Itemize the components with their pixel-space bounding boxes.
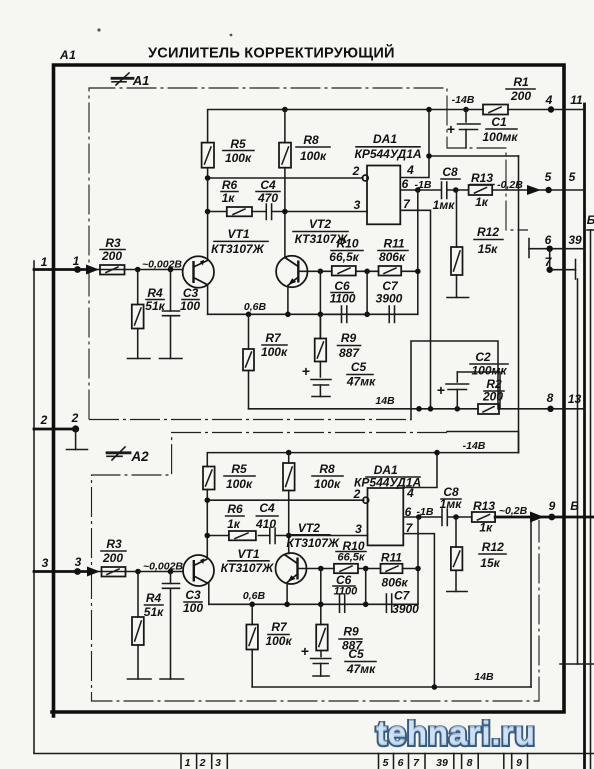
wire VT1' collector down	[208, 583, 210, 604]
svg-text:УСИЛИТЕЛЬ КОРРЕКТИРУЮЩИЙ: УСИЛИТЕЛЬ КОРРЕКТИРУЮЩИЙ	[148, 44, 395, 62]
resistor R7'	[251, 604, 253, 687]
svg-text:R3: R3	[105, 236, 121, 250]
svg-text:100к: 100к	[225, 151, 252, 165]
node C3 tap	[168, 267, 174, 273]
wire -14V rail channel2	[207, 453, 518, 467]
capacitor C8'	[442, 509, 447, 526]
wire pin7 supply	[400, 210, 430, 408]
svg-text:С7: С7	[394, 589, 411, 603]
wire C2 top link	[457, 372, 500, 409]
svg-text:8: 8	[547, 391, 554, 405]
capacitor C7	[389, 306, 394, 323]
connector bar 7	[575, 260, 577, 280]
capacitor C6	[342, 306, 347, 323]
svg-text:+: +	[437, 382, 445, 398]
resistor R6	[227, 207, 252, 216]
resistor R7	[248, 314, 250, 409]
svg-text:С2: С2	[475, 350, 491, 364]
wire output 5	[538, 189, 585, 191]
svg-text:3: 3	[354, 198, 361, 212]
op-amp DA1 channel1	[367, 166, 400, 225]
svg-text:КР544УД1А: КР544УД1А	[354, 147, 421, 161]
svg-text:-0,2В: -0,2В	[497, 179, 523, 191]
svg-text:1: 1	[41, 255, 48, 269]
svg-text:~0,002В: ~0,002В	[142, 259, 182, 271]
svg-text:51к: 51к	[144, 605, 164, 619]
svg-text:8: 8	[467, 757, 473, 769]
svg-text:R4: R4	[147, 286, 163, 300]
svg-text:R8: R8	[303, 133, 319, 147]
svg-text:tehnari.ru: tehnari.ru	[376, 715, 536, 752]
resistor R11'	[381, 564, 403, 573]
node R7 tap	[246, 312, 252, 318]
transistor VT2'	[276, 553, 307, 584]
scan speck 1	[97, 28, 100, 31]
wire node2 stub	[75, 429, 77, 450]
svg-text:А1: А1	[132, 73, 150, 88]
capacitor C7'	[386, 594, 391, 612]
svg-text:806к: 806к	[382, 576, 409, 590]
capacitor C4	[266, 204, 271, 220]
svg-text:14В: 14В	[375, 395, 395, 407]
svg-text:6: 6	[398, 757, 404, 769]
watermark tehnari.ru	[376, 715, 536, 754]
svg-text:100: 100	[180, 299, 200, 313]
resistor R5	[202, 143, 214, 168]
svg-text:3: 3	[355, 522, 362, 536]
wire node A' vertical	[320, 569, 322, 625]
svg-text:Б: Б	[570, 499, 579, 513]
svg-text:R1: R1	[513, 75, 529, 89]
wire VT2 emitter down	[287, 286, 289, 315]
svg-text:2: 2	[71, 411, 79, 425]
svg-text:R8: R8	[319, 462, 335, 476]
resistor R1	[483, 105, 508, 115]
ground bar C5	[312, 396, 330, 398]
resistor R9'	[316, 625, 328, 651]
svg-text:R13: R13	[473, 499, 495, 513]
resistor R4'	[137, 572, 139, 680]
wire R6 C4 pin3 row	[208, 211, 367, 213]
svg-text:200: 200	[102, 551, 123, 565]
node R4 tap	[135, 267, 141, 273]
wire pin4' supply	[403, 453, 437, 488]
svg-text:1мк: 1мк	[433, 198, 456, 212]
wire pin6' output row	[403, 516, 472, 518]
svg-text:DA1: DA1	[373, 132, 397, 146]
svg-text:7: 7	[545, 255, 553, 269]
svg-text:VT2: VT2	[298, 521, 320, 535]
svg-text:Б: Б	[587, 213, 594, 227]
wire VT2' emitter down	[286, 583, 288, 605]
svg-text:1к: 1к	[479, 521, 493, 535]
svg-text:1100: 1100	[334, 586, 359, 598]
wire input 2 common	[34, 428, 76, 431]
svg-text:1к: 1к	[227, 517, 241, 531]
wire R6' C4' pin3' row	[207, 535, 367, 537]
capacitor C8	[442, 182, 447, 199]
svg-text:5: 5	[383, 757, 389, 769]
block A1 boundary dash-dot	[89, 88, 528, 420]
svg-text:806к: 806к	[379, 250, 406, 264]
resistor R8	[284, 110, 286, 143]
wire op-amp pin2 row	[208, 177, 363, 179]
wire terminal 8	[547, 406, 553, 412]
ground bar R4	[128, 358, 151, 360]
svg-text:0,6В: 0,6В	[243, 590, 266, 602]
transistor VT2	[276, 256, 307, 287]
ground bar node 2	[67, 449, 88, 451]
node 1 junction	[74, 266, 81, 273]
wire terminal 6	[529, 248, 585, 250]
arrow output 5	[527, 185, 541, 195]
node R8 top	[282, 107, 288, 113]
wire VT1 top lead	[207, 212, 209, 261]
node C3' tap	[168, 569, 174, 575]
wire output 9	[495, 516, 594, 519]
svg-text:R9: R9	[343, 625, 359, 639]
resistor R3	[100, 265, 125, 275]
svg-text:VT1: VT1	[227, 227, 249, 241]
svg-text:4: 4	[406, 163, 414, 177]
pin 2' circle	[363, 497, 369, 503]
right edge bus line	[590, 230, 592, 769]
svg-text:~0,2В: ~0,2В	[499, 505, 528, 517]
resistor R10	[332, 266, 356, 276]
svg-text:887: 887	[339, 346, 360, 360]
svg-text:R12: R12	[477, 225, 499, 239]
ground bar C5'	[313, 675, 329, 677]
svg-text:11: 11	[570, 93, 583, 107]
svg-text:7: 7	[413, 757, 420, 769]
resistor R12	[456, 190, 458, 298]
svg-text:+: +	[301, 643, 309, 659]
left bus wire	[33, 261, 35, 753]
svg-text:А1: А1	[59, 48, 76, 62]
svg-text:R5: R5	[231, 462, 247, 476]
wire node B vertical	[366, 271, 368, 314]
resistor R10'	[334, 564, 358, 573]
capacitor C6'	[340, 594, 345, 612]
svg-text:5: 5	[545, 170, 552, 184]
svg-text:1: 1	[185, 757, 191, 769]
svg-text:R7: R7	[265, 331, 282, 345]
svg-text:R12: R12	[482, 540, 504, 554]
svg-text:410: 410	[255, 517, 276, 531]
transistor VT1'	[183, 555, 214, 586]
svg-text:КТ3107Ж: КТ3107Ж	[286, 536, 340, 550]
arrow input 3	[87, 567, 100, 577]
svg-text:470: 470	[257, 191, 278, 205]
wire 14V rail channel2	[252, 686, 531, 688]
wire pin6 output row	[400, 189, 527, 191]
arrow output 9	[530, 512, 544, 523]
ground bar R4'	[128, 678, 152, 680]
wire terminal 7	[550, 249, 576, 270]
arrow input 1	[86, 265, 99, 275]
ground bar C3	[160, 358, 183, 360]
svg-text:100мк: 100мк	[483, 130, 519, 144]
svg-text:5: 5	[569, 170, 576, 184]
svg-text:3: 3	[42, 556, 49, 570]
svg-text:100к: 100к	[300, 149, 327, 163]
ground bar R12'	[447, 591, 467, 593]
svg-text:R9: R9	[341, 331, 357, 345]
svg-text:14В: 14В	[474, 671, 494, 683]
svg-text:100к: 100к	[265, 634, 292, 648]
svg-text:R6: R6	[227, 502, 243, 516]
wire emitter-R7-VT2 row 0.6V	[208, 313, 418, 315]
capacitor C1 electrolytic	[463, 107, 469, 113]
svg-text:С4: С4	[259, 501, 275, 515]
wire right edge tick	[587, 229, 594, 231]
svg-text:~0,002В: ~0,002В	[143, 561, 183, 573]
transistor VT1	[183, 256, 214, 287]
svg-text:С5: С5	[351, 360, 367, 374]
svg-text:200: 200	[510, 89, 531, 103]
svg-text:R13: R13	[471, 171, 493, 185]
wire terminal 4	[548, 106, 554, 112]
svg-text:R11: R11	[383, 237, 404, 251]
svg-text:КТ3107Ж: КТ3107Ж	[221, 561, 275, 575]
wire node A vertical	[319, 271, 321, 338]
wire pin7' supply	[403, 534, 434, 687]
svg-text:2: 2	[352, 164, 360, 178]
scan speck 2	[230, 34, 233, 37]
svg-text:9: 9	[549, 499, 556, 513]
frame outer thick border	[52, 65, 564, 716]
svg-text:2: 2	[40, 413, 48, 427]
resistor R5'	[203, 467, 215, 490]
svg-text:100мк: 100мк	[472, 364, 508, 378]
wire op-amp pin2' row	[207, 499, 363, 501]
svg-text:R11: R11	[381, 551, 402, 565]
svg-text:100к: 100к	[314, 477, 341, 491]
svg-text:1к: 1к	[222, 191, 236, 205]
capacitor C3	[170, 270, 172, 359]
svg-text:4: 4	[545, 93, 553, 107]
svg-text:39: 39	[568, 233, 582, 247]
bottom ruler ticks group 1	[181, 754, 227, 769]
svg-text:200: 200	[101, 249, 122, 263]
svg-text:66,5к: 66,5к	[329, 250, 359, 264]
bottom ruler line	[34, 753, 594, 755]
resistor R11	[379, 266, 402, 276]
ground bar C3'	[160, 678, 184, 680]
svg-text:R7: R7	[271, 620, 288, 634]
svg-text:6: 6	[402, 177, 409, 191]
svg-text:100к: 100к	[261, 345, 288, 359]
svg-text:R6: R6	[222, 178, 238, 192]
ground symbol A1	[112, 73, 133, 85]
wire input 1	[34, 268, 88, 271]
ground symbol A2	[107, 447, 130, 460]
resistor R6'	[229, 531, 256, 540]
svg-text:-14В: -14В	[463, 440, 486, 452]
block A1 boundary bottom	[89, 419, 411, 421]
svg-text:15к: 15к	[478, 242, 498, 256]
svg-text:66,5к: 66,5к	[338, 552, 366, 564]
wire 0.6V row channel2	[209, 603, 418, 605]
wire pin6' net vertical	[417, 517, 419, 604]
svg-text:R10: R10	[336, 237, 358, 251]
svg-text:+: +	[447, 121, 455, 137]
wire pin6 net vertical	[417, 190, 419, 314]
wire terminal7 drop	[577, 279, 579, 664]
node R4' tap	[135, 569, 141, 575]
pin 2 circle	[362, 175, 368, 181]
svg-text:3900: 3900	[376, 292, 403, 306]
svg-text:1к: 1к	[475, 195, 489, 209]
svg-text:100к: 100к	[226, 477, 253, 491]
wire node B' vertical	[365, 569, 367, 605]
svg-text:+: +	[302, 363, 310, 379]
capacitor C3'	[170, 572, 172, 680]
svg-text:С8: С8	[442, 165, 458, 179]
svg-text:С4: С4	[260, 178, 276, 192]
svg-text:6: 6	[545, 233, 552, 247]
svg-text:VT2: VT2	[309, 217, 331, 231]
svg-text:3900: 3900	[392, 602, 419, 616]
node R8' top	[286, 450, 292, 456]
wire exit bottom right	[560, 663, 594, 665]
wire VT2 base feedback row	[298, 270, 418, 272]
wire pin4 to -14V rail	[400, 110, 429, 178]
svg-text:VT1: VT1	[237, 547, 259, 561]
svg-text:1: 1	[73, 254, 80, 268]
svg-text:47мк: 47мк	[346, 662, 376, 676]
svg-text:3: 3	[215, 757, 221, 769]
svg-text:2: 2	[199, 757, 206, 769]
svg-text:R5: R5	[230, 137, 246, 151]
resistor R3'	[102, 567, 126, 577]
svg-text:А2: А2	[130, 449, 149, 464]
svg-text:-14В: -14В	[452, 94, 475, 106]
wire 14V rail channel1	[249, 408, 585, 410]
svg-text:1100: 1100	[330, 292, 356, 306]
wire -14V top rail	[208, 110, 585, 143]
svg-text:R4: R4	[146, 591, 162, 605]
block A2 boundary dash-dot	[92, 433, 540, 702]
svg-text:100: 100	[183, 601, 203, 615]
svg-text:3: 3	[75, 555, 82, 569]
resistor R13'	[472, 512, 495, 522]
wire -14V link top	[447, 432, 519, 453]
resistor R9	[319, 314, 321, 377]
svg-text:1мк: 1мк	[440, 497, 463, 511]
svg-text:С5: С5	[348, 647, 364, 661]
connector bar 6	[528, 239, 530, 258]
wire -14V branch row	[429, 155, 519, 157]
svg-text:С3: С3	[185, 588, 201, 602]
svg-text:15к: 15к	[480, 556, 500, 570]
block A2 inner outline right	[530, 519, 532, 687]
capacitor C4'	[270, 528, 275, 544]
svg-text:2: 2	[353, 487, 361, 501]
wire VT2' base feedback row'	[298, 568, 419, 570]
resistor R8'	[288, 453, 290, 463]
wire input 3	[34, 570, 89, 573]
node R7' tap	[249, 602, 255, 608]
block A1 inner step outline	[411, 341, 498, 420]
ground bar R12	[447, 297, 469, 299]
svg-text:47мк: 47мк	[346, 375, 376, 389]
bottom ruler ticks group 2	[379, 754, 528, 769]
wire -14V vertical to channel2	[518, 156, 520, 453]
resistor R2	[478, 404, 499, 414]
resistor R13	[469, 185, 493, 195]
svg-text:R3: R3	[106, 537, 122, 551]
svg-text:9: 9	[516, 757, 522, 769]
svg-text:39: 39	[436, 757, 448, 769]
svg-text:13: 13	[568, 392, 582, 406]
op-amp DA1 channel2	[368, 488, 404, 545]
right bus line 11-5-39-13	[583, 104, 586, 769]
resistor R4	[137, 270, 139, 359]
svg-text:0,6В: 0,6В	[244, 301, 267, 313]
svg-text:КТ3107Ж: КТ3107Ж	[211, 242, 265, 256]
resistor R12'	[455, 517, 457, 592]
svg-text:7: 7	[403, 197, 411, 211]
svg-text:С1: С1	[491, 115, 507, 129]
wire VT1 collector down	[207, 285, 209, 315]
